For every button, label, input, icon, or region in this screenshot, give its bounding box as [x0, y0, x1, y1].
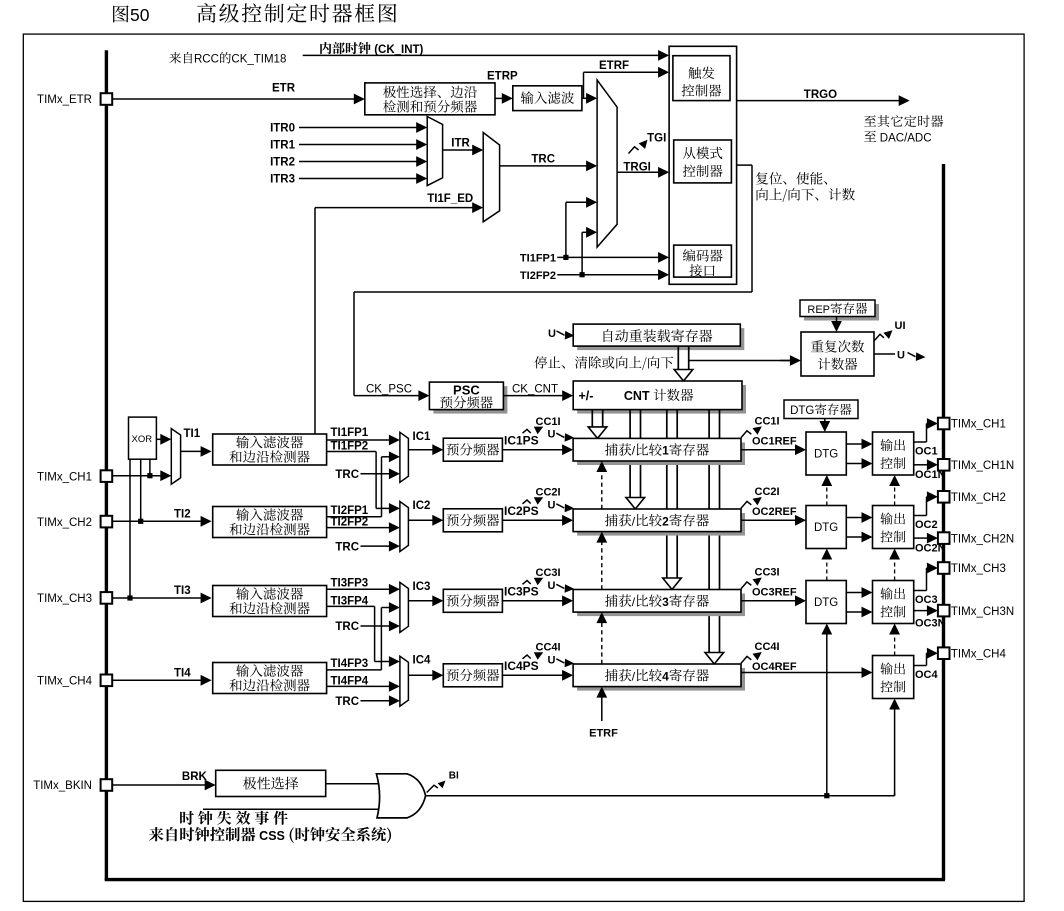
svg-text:TIMx_CH1: TIMx_CH1 [37, 471, 92, 483]
svg-text:TIMx_CH3: TIMx_CH3 [951, 563, 1006, 575]
svg-text:TRC: TRC [335, 469, 359, 481]
svg-text:CC2I: CC2I [536, 487, 561, 499]
wire BI to deadtime columns [426, 795, 895, 797]
svg-text:TI1: TI1 [184, 428, 201, 440]
svg-text:TRC: TRC [335, 541, 359, 553]
pin TIMx_CH2 (right) [938, 491, 950, 503]
svg-text:IC1: IC1 [413, 431, 432, 443]
svg-text:TGI: TGI [647, 132, 666, 144]
wire IC3PS to register [502, 600, 563, 602]
svg-text:CK_PSC: CK_PSC [366, 384, 412, 396]
wire ETRF [584, 71, 660, 73]
wire ETRF to register 4 [601, 697, 603, 721]
svg-text:1: 1 [662, 444, 669, 458]
svg-text:TIMx_CH1: TIMx_CH1 [951, 419, 1006, 431]
svg-text:IC4: IC4 [413, 655, 432, 667]
mux TRC selector [483, 133, 499, 222]
svg-text:RCC: RCC [194, 54, 219, 66]
svg-text:BRK: BRK [182, 771, 208, 783]
pin TIMx_CH1 (right) [938, 418, 950, 430]
svg-text:ITR2: ITR2 [270, 157, 295, 169]
wires XOR inputs from CH1/CH2/CH3 [149, 459, 151, 476]
label 至DAC/ADC [864, 131, 876, 142]
svg-text:CC3I: CC3I [536, 567, 561, 579]
svg-text:IC3: IC3 [413, 581, 431, 593]
wires DTG to output control channel 1 [846, 443, 862, 445]
wire mux IC3 to prescaler [408, 600, 433, 602]
svg-text:TIMx_CH3N: TIMx_CH3N [951, 606, 1014, 618]
wire OC1N to pin [914, 464, 928, 466]
box polarity selection 极性选择 [216, 770, 326, 796]
svg-text:+/-: +/- [579, 389, 594, 403]
wire TI1FP2 into mux IC2 top [376, 507, 388, 509]
wires DTG to output control channel 2 [846, 517, 862, 519]
svg-text:TI3: TI3 [174, 585, 191, 597]
wire BRK [112, 784, 206, 786]
wires DTG to output control channel 3 [846, 592, 862, 594]
svg-text:TIMx_CH2: TIMx_CH2 [37, 517, 92, 529]
wire polarity to OR gate [326, 783, 381, 785]
wire OC2 to pin [914, 515, 927, 517]
svg-text:TI4: TI4 [174, 667, 191, 679]
label UI with event arrow [874, 334, 884, 341]
pin TIMx_CH3 (right) [938, 562, 950, 574]
box CNT counter [577, 385, 746, 414]
mux TI1 selector [171, 429, 180, 485]
svg-text:CC4I: CC4I [536, 642, 561, 654]
svg-text:BI: BI [449, 770, 459, 781]
title 图50 高级控制定时器框图 [113, 5, 129, 22]
svg-text:PSC: PSC [453, 382, 480, 397]
svg-text:CC2I: CC2I [755, 486, 780, 498]
svg-text:TI4FP3: TI4FP3 [331, 658, 369, 670]
left bus bar [105, 50, 108, 880]
svg-text:DTG: DTG [814, 522, 838, 534]
box capture/compare register 3 捕获/比较3寄存器 [577, 594, 745, 617]
label 内部时钟 (CK_INT) [320, 42, 331, 54]
svg-text:ITR1: ITR1 [270, 140, 296, 152]
svg-text:CSS: CSS [256, 829, 289, 843]
box auto-reload register 自动重装载寄存器 [577, 328, 744, 350]
wire slave controller feedback to CK_PSC [737, 164, 752, 166]
wire TI1FP2 down to mux IC2 [327, 451, 377, 453]
box input filter & edge detector channel 1 [213, 434, 327, 465]
svg-text:TI1FP1: TI1FP1 [520, 253, 556, 265]
wire TI4FP4 to mux [327, 685, 390, 687]
svg-text:UI: UI [895, 320, 906, 332]
label CC4I with event arrow (left) [523, 655, 531, 659]
wire XOR output to TI1 mux [156, 438, 161, 440]
box prescaler 预分频器 channel 2 [443, 509, 502, 532]
box DTG channel 1 [806, 432, 846, 475]
wire TI3FP3 to mux [327, 588, 390, 590]
wire TI2FP2 to encoder [557, 274, 659, 276]
box output control 输出控制 channel 3 [873, 581, 914, 624]
svg-text:DAC/ADC: DAC/ADC [877, 133, 932, 145]
box output control 输出控制 channel 2 [873, 506, 914, 549]
svg-text:U: U [548, 429, 556, 441]
wire TI1FP1 to encoder [557, 256, 659, 258]
label CC2I with event arrow (left) [523, 500, 531, 504]
box slave mode controller 从模式控制器 [674, 140, 732, 183]
box capture/compare register 4 捕获/比较4寄存器 [577, 668, 745, 691]
svg-text:U: U [548, 499, 556, 511]
wire branch to repetition counter [689, 360, 790, 362]
svg-text:TI3FP3: TI3FP3 [331, 577, 369, 589]
svg-text:4: 4 [662, 669, 669, 683]
svg-text:TI2FP2: TI2FP2 [520, 270, 556, 282]
svg-text:TI1FP1: TI1FP1 [331, 427, 369, 439]
svg-text:OC4: OC4 [915, 669, 939, 681]
svg-text:ITR: ITR [451, 138, 470, 150]
wire auto-reload to CNT (update event) [677, 346, 679, 371]
box prescaler 预分频器 channel 1 [443, 438, 502, 461]
wire ITR [443, 149, 474, 151]
box input filter & edge detector channel 2 [213, 507, 327, 538]
box DTG register DTG寄存器 [784, 400, 858, 419]
svg-text:TI2FP2: TI2FP2 [331, 517, 369, 529]
svg-text:IC2PS: IC2PS [504, 504, 539, 518]
svg-text:IC1PS: IC1PS [504, 433, 539, 447]
wire TI1 mux output [181, 450, 202, 452]
svg-text:TI4FP4: TI4FP4 [331, 675, 369, 687]
box output control 输出控制 channel 1 [873, 432, 914, 475]
mux ITR selector [427, 117, 442, 186]
wire TRC [500, 165, 587, 167]
label CC3I with event arrow (left) [523, 581, 531, 585]
wire TRC stub channel 4 [361, 700, 390, 702]
svg-text:CC1I: CC1I [755, 415, 780, 427]
wire mux IC1 to prescaler [408, 449, 433, 451]
box PSC prescaler [433, 386, 507, 414]
svg-text:ETR: ETR [272, 83, 296, 95]
box input filter & edge detector channel 3 [213, 586, 327, 617]
wires deadtime/break vertical (output control column) [894, 709, 896, 796]
svg-text:REP: REP [807, 304, 830, 316]
svg-text:TI3FP4: TI3FP4 [331, 595, 369, 607]
OR gate [376, 774, 425, 818]
label CC4I with event arrow (right) [741, 656, 751, 663]
svg-text:DTG: DTG [814, 597, 838, 609]
svg-text:CNT: CNT [624, 389, 653, 403]
box DTG channel 3 [806, 581, 846, 624]
wire TRC stub channel 1 [361, 473, 390, 475]
wire clock failure input [203, 808, 381, 810]
wire DTG register to DTG [824, 419, 826, 423]
svg-text:DTG: DTG [814, 449, 838, 461]
svg-text:2: 2 [662, 514, 669, 528]
svg-text:TIMx_CH1N: TIMx_CH1N [951, 460, 1014, 472]
bottom thick wire [105, 878, 945, 881]
svg-text:TI1F_ED: TI1F_ED [427, 193, 473, 205]
svg-text:TI1FP2: TI1FP2 [331, 441, 369, 453]
svg-text:CC1I: CC1I [536, 416, 561, 428]
wire TI1F_ED [314, 208, 316, 434]
svg-text:ETRP: ETRP [487, 71, 518, 83]
wire mux IC2 to prescaler [408, 519, 433, 521]
wire TI3FP4 down to mux IC4 [327, 605, 375, 607]
wire OC3N to pin [914, 610, 928, 612]
wire ETRP [495, 97, 503, 99]
wires deadtime/break vertical (DTG column) [826, 634, 828, 796]
pin TIMx_CH1N (right) [938, 459, 950, 471]
box repetition counter 重复次数计数器 [801, 332, 874, 376]
wire CK_INT [303, 54, 659, 56]
label BI with event arrow [427, 785, 438, 792]
wire OC2N to pin [914, 537, 928, 539]
label 来自RCC的CK_TIM18 [169, 52, 181, 63]
label 复位、使能、向上/向下、计数 [756, 172, 768, 184]
wire IC4PS to register [502, 674, 563, 676]
svg-text:CC3I: CC3I [755, 567, 780, 579]
wires ITR0-ITR3 [299, 127, 417, 129]
svg-text:OC1REF: OC1REF [752, 436, 797, 448]
box capture/compare register 2 捕获/比较2寄存器 [577, 513, 745, 536]
svg-text:OC3: OC3 [915, 594, 938, 606]
svg-text:U: U [548, 654, 556, 666]
svg-text:TIMx_CH3: TIMx_CH3 [37, 593, 92, 605]
svg-text:TRC: TRC [335, 696, 359, 708]
svg-text:TIMx_CH2N: TIMx_CH2N [951, 533, 1014, 545]
wire TI3 [112, 597, 201, 599]
svg-text:TI2: TI2 [174, 508, 191, 520]
svg-text:OC2: OC2 [915, 519, 938, 531]
wire U out of repetition counter [874, 353, 895, 355]
mux TRGI selector [597, 80, 617, 247]
wire OC1REF [741, 449, 796, 451]
wire TRC stub channel 2 [361, 545, 390, 547]
wire CK_PSC [354, 395, 419, 397]
wire ETR [112, 98, 355, 100]
controller outer box [669, 46, 737, 284]
wire IC2PS to register [502, 519, 563, 521]
box REP register REP寄存器 [804, 304, 879, 321]
svg-text:TI2FP1: TI2FP1 [331, 505, 369, 517]
svg-text:U: U [548, 580, 556, 592]
svg-text:ETRF: ETRF [589, 728, 618, 740]
svg-text:IC3PS: IC3PS [504, 585, 539, 599]
wire TRC stub channel 3 [361, 625, 390, 627]
label CC1I with event arrow (left) [523, 429, 531, 433]
box output control 输出控制 channel 4 [873, 656, 914, 699]
svg-text:CK_CNT: CK_CNT [512, 384, 558, 396]
wire ETRF branch [583, 72, 585, 98]
wire OC1 to pin [914, 441, 927, 443]
svg-text:TRC: TRC [335, 621, 359, 633]
svg-text:ITR0: ITR0 [270, 123, 295, 135]
pin TIMx_CH4 (right) [938, 647, 950, 659]
svg-text:TIMx_CH4: TIMx_CH4 [37, 676, 93, 688]
wire TI2 [112, 520, 201, 522]
wire OC4 to pin [914, 665, 927, 667]
svg-text:OC4REF: OC4REF [752, 661, 797, 673]
box trigger controller 触发控制器 [673, 56, 730, 101]
svg-text:TRGO: TRGO [804, 89, 837, 101]
box prescaler 预分频器 channel 3 [443, 589, 502, 612]
wires CNT update events to capture/compare registers [591, 410, 593, 429]
svg-text:IC2: IC2 [413, 500, 431, 512]
box capture/compare register 1 捕获/比较1寄存器 [577, 442, 745, 465]
svg-text:TIMx_CH4: TIMx_CH4 [951, 648, 1007, 660]
box encoder interface 编码器接口 [674, 245, 732, 277]
svg-text:OC1: OC1 [915, 446, 938, 458]
wire TI2FP2 to mux [327, 527, 390, 529]
svg-text:U: U [897, 350, 905, 362]
svg-text:XOR: XOR [132, 434, 153, 445]
wire TI4FP3 up to mux IC3 [327, 669, 382, 671]
label CC2I with event arrow (right) [741, 501, 751, 508]
wire REP to repetition counter [836, 317, 838, 323]
svg-text:U: U [548, 328, 556, 340]
svg-text:TRGI: TRGI [623, 161, 650, 173]
label 来自时钟控制器CSS [149, 827, 164, 841]
svg-text:TRC: TRC [531, 153, 555, 165]
svg-text:50: 50 [130, 5, 150, 25]
wire TI1FP1 to mux [327, 439, 390, 441]
svg-text:TIMx_BKIN: TIMx_BKIN [33, 780, 92, 792]
wire TRGI [617, 171, 659, 173]
wire OC3 to pin [914, 590, 927, 592]
svg-text:TIMx_CH2: TIMx_CH2 [951, 492, 1006, 504]
svg-text:TIMx_ETR: TIMx_ETR [37, 94, 92, 106]
label CC3I with event arrow (right) [741, 582, 751, 589]
wire TI4 [112, 679, 201, 681]
label CC1I with event arrow (right) [741, 431, 751, 438]
box prescaler 预分频器 channel 4 [443, 664, 502, 687]
svg-text:CC4I: CC4I [755, 641, 780, 653]
wire mux IC4 to prescaler [408, 674, 433, 676]
wire OC4REF [741, 672, 863, 674]
label TGI with event arrow [629, 147, 639, 154]
box input filter & edge detector channel 4 [213, 663, 327, 694]
svg-text:OC3N: OC3N [915, 618, 946, 630]
label 时钟失效事件 [180, 811, 194, 825]
svg-text:(CK_INT): (CK_INT) [371, 44, 424, 56]
svg-text:IC4PS: IC4PS [504, 659, 539, 673]
box XOR [129, 417, 157, 459]
wire CH1 to TI1 mux [112, 475, 161, 477]
wire TRGO [737, 100, 900, 102]
svg-text:DTG: DTG [790, 405, 814, 417]
svg-text:CK_TIM18: CK_TIM18 [231, 54, 286, 66]
wire IC1PS to register [502, 449, 563, 451]
svg-text:OC2REF: OC2REF [752, 506, 797, 518]
label 停止、清除或向上/向下 [534, 356, 547, 369]
box polarity/edge/prescaler 极性选择、边沿检测和预分频器 [365, 83, 495, 115]
pin TIMx_CH2N (right) [938, 532, 950, 544]
wire TI2FP1 up to mux IC1 [327, 516, 382, 518]
svg-text:OC3REF: OC3REF [752, 587, 797, 599]
svg-text:ITR3: ITR3 [270, 174, 295, 186]
box input filter 输入滤波 [513, 86, 582, 111]
wire filter output to mux [582, 97, 587, 99]
wire TI3FP4 into mux IC4 top [375, 661, 388, 663]
box DTG channel 2 [806, 506, 846, 549]
wire CK_CNT [503, 395, 563, 397]
svg-text:3: 3 [662, 595, 669, 609]
label 至其它定时器 [864, 115, 876, 126]
wires capture events dashed (between registers) [601, 471, 603, 509]
svg-text:ETRF: ETRF [599, 60, 629, 72]
right bus bar [942, 164, 945, 880]
wire OC2REF [741, 519, 796, 521]
pin TIMx_CH3N (right) [938, 605, 950, 617]
wire OC3REF [741, 600, 796, 602]
